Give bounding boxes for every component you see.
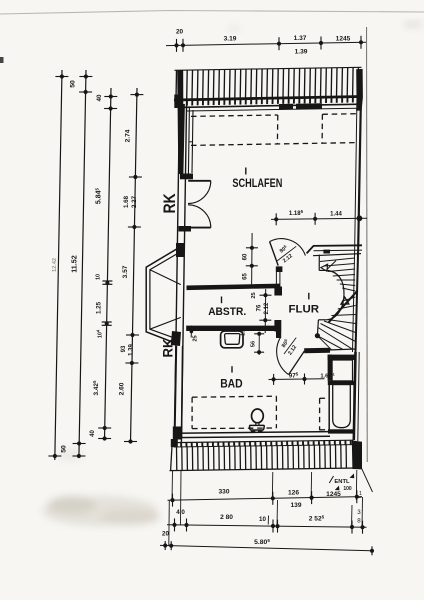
room tick abstr: [221, 297, 223, 304]
window glazing block left: [279, 104, 293, 110]
window glazing block right: [296, 103, 322, 109]
balcony band left corner: [174, 95, 181, 109]
svg-text:SCHLAFEN: SCHLAFEN: [232, 178, 282, 190]
abstr bottom wall: [186, 326, 281, 331]
svg-text:50: 50: [61, 445, 68, 453]
balcony band right end post: [356, 69, 363, 98]
schlafen double door leaf A: [188, 180, 211, 182]
svg-text:1245: 1245: [326, 491, 341, 498]
svg-text:2.12: 2.12: [264, 302, 270, 314]
extension lines to bottom dims: [168, 500, 171, 546]
svg-text:ENTL: ENTL: [334, 479, 350, 485]
svg-text:100: 100: [343, 486, 352, 492]
dashed vertical left: [276, 115, 278, 144]
svg-text:40: 40: [90, 430, 96, 437]
left wall black top section: [177, 70, 185, 174]
svg-text:330: 330: [218, 489, 229, 496]
bad dashed box bottom: [192, 427, 276, 430]
wc base marks: [251, 431, 256, 433]
scan smudge bottom left: [42, 449, 160, 526]
svg-text:11.52: 11.52: [70, 255, 79, 273]
room tick schlafen: [245, 168, 247, 175]
door jamb lower (schlafen door): [179, 226, 192, 232]
bottom dim line B: [167, 525, 367, 527]
entl arrow left: [335, 486, 340, 491]
bottom band right end post: [352, 440, 362, 469]
svg-text:2.60: 2.60: [119, 382, 126, 395]
sink dim line 56: [258, 332, 260, 355]
left dim line 1 (outermost): [55, 70, 62, 460]
wc cistern: [250, 425, 265, 430]
bay hip line top: [150, 270, 181, 285]
interior dim line 76/2.12: [264, 289, 267, 333]
svg-text:1.37: 1.37: [294, 35, 307, 42]
room tick bad: [231, 366, 233, 372]
svg-text:4 0: 4 0: [176, 509, 185, 516]
schlafen double door arc B: [188, 205, 211, 228]
svg-text:ABSTR.: ABSTR.: [208, 306, 246, 318]
bad dashed tub side top: [320, 397, 329, 399]
schlafen double door arc A: [188, 181, 211, 204]
left dim 10 hash marks lower: [102, 321, 112, 323]
flur bottom wall (thick): [304, 348, 330, 354]
stair entry arrowhead: [321, 264, 328, 271]
flur door jamb lower: [276, 332, 281, 339]
left exterior wall inner face: [181, 101, 186, 443]
wc stem: [255, 423, 257, 426]
svg-text:1245: 1245: [336, 36, 351, 43]
flur west wall middle block: [274, 287, 282, 296]
svg-text:1.39: 1.39: [129, 344, 135, 356]
balcony rail feet: [175, 101, 177, 106]
svg-text:BAD: BAD: [220, 378, 243, 390]
bad bottom wall outer: [176, 432, 330, 434]
bad dashed tub side vertical: [319, 398, 321, 430]
stair up arrowhead: [341, 297, 349, 304]
svg-text:126: 126: [288, 490, 299, 497]
bottom band hatch lines: [176, 447, 178, 471]
balcony railing band top: [175, 67, 362, 70]
left dim line 4 (innermost): [131, 88, 138, 443]
scan speck left edge: [0, 57, 4, 63]
svg-text:3: 3: [357, 509, 361, 516]
svg-text:20: 20: [176, 29, 184, 36]
bottom dim line A: [168, 497, 363, 501]
wall between shower and tub: [328, 381, 355, 385]
door 2 leaf: [289, 351, 305, 375]
svg-text:1.25: 1.25: [96, 301, 103, 314]
top right wall corner: [356, 97, 363, 111]
schlafen top wall outer: [178, 104, 363, 107]
svg-text:1: 1: [359, 491, 362, 497]
bottom band posts: [175, 443, 177, 447]
flur west wall thin section: [275, 272, 277, 287]
dashed roof line upper left: [191, 115, 278, 116]
svg-text:2 80: 2 80: [220, 514, 233, 521]
entl leader diagonal: [361, 466, 373, 492]
bay junction top black: [176, 243, 184, 257]
svg-text:93: 93: [121, 345, 127, 352]
stair bottom edge: [328, 349, 356, 350]
stair entry arrow tail: [327, 261, 336, 270]
entl arrow right: [350, 474, 355, 479]
abstr bottom wall tick 25: [190, 326, 192, 338]
left wall lining tick: [189, 141, 193, 143]
left wall bottom corner black: [173, 427, 181, 440]
entl slash: [329, 476, 333, 483]
bottom band left edge: [171, 442, 173, 470]
svg-text:3.19: 3.19: [224, 36, 237, 43]
bay hip line bottom: [150, 317, 181, 329]
bad dashed box top: [192, 396, 276, 397]
stair lower notch: [318, 319, 326, 321]
scan ghost marks top right: [228, 22, 422, 31]
svg-text:RK: RK: [161, 193, 179, 213]
svg-text:56: 56: [250, 341, 256, 347]
washbasin inner: [225, 334, 240, 345]
washbasin outer: [221, 331, 243, 348]
bathtub bottom wall: [328, 429, 354, 433]
abstr top wall: [187, 286, 281, 288]
left exterior wall outer face: [174, 70, 180, 445]
door 1 arc: [270, 239, 306, 256]
door 1 leaf: [270, 242, 279, 266]
svg-text:RK: RK: [160, 339, 176, 358]
bottom band left corner black: [171, 439, 178, 447]
stair lower treads: [343, 297, 356, 301]
svg-text:10: 10: [259, 516, 266, 523]
stair newel curve: [327, 270, 344, 319]
shower top wall: [328, 355, 356, 360]
bay window inner outline: [150, 251, 183, 340]
bay junction bottom black: [171, 331, 181, 346]
dashed roof line upper right: [322, 113, 357, 116]
svg-text:10: 10: [96, 274, 102, 280]
interior dim line 60/65: [251, 233, 254, 288]
left wall lining line 1: [188, 108, 189, 176]
room tick flur: [308, 293, 310, 300]
bottom band rail line 2: [174, 445, 354, 447]
door 2 label slash: [284, 338, 296, 354]
wc bowl: [252, 409, 264, 423]
left dim line 2: [79, 70, 86, 458]
bad dashed tub side bottom: [320, 429, 329, 431]
svg-text:FLUR: FLUR: [289, 304, 320, 316]
stair upper left edge: [318, 255, 320, 271]
svg-text:50: 50: [70, 80, 77, 88]
bottom band top edge: [174, 440, 354, 442]
balcony rail (thick): [174, 97, 362, 101]
flur west wall top jamb: [276, 266, 283, 272]
right wall (bath): [354, 352, 356, 440]
left dim 10 hash marks: [102, 280, 112, 282]
interior dim line 1.18/1.44: [271, 218, 367, 219]
door 1 label slash: [277, 246, 296, 261]
svg-text:2.74: 2.74: [125, 129, 132, 142]
dashed vertical right: [321, 114, 323, 143]
svg-text:25: 25: [193, 335, 199, 341]
svg-text:1.44: 1.44: [330, 212, 342, 218]
left dim line 3: [105, 88, 112, 440]
flur top wall notch: [323, 250, 330, 254]
bad dashed box left: [191, 397, 193, 428]
stair jog line: [319, 269, 327, 271]
door 2 arc: [277, 337, 289, 374]
svg-text:1.39: 1.39: [295, 49, 308, 56]
schlafen double door leaf B: [188, 227, 211, 229]
shower interior outline: [332, 360, 352, 381]
right exterior wall (schlafen): [358, 105, 361, 248]
svg-text:8: 8: [357, 518, 361, 525]
stair up direction line (thick): [329, 291, 358, 323]
dashed roof line lower: [191, 143, 357, 146]
stair lower junction dot: [315, 333, 320, 338]
svg-text:2.27: 2.27: [131, 195, 138, 208]
svg-text:3.57: 3.57: [122, 265, 129, 278]
bad dashed box right: [275, 396, 277, 428]
right border line: [366, 27, 369, 462]
svg-text:20: 20: [162, 531, 169, 538]
svg-text:60: 60: [243, 253, 249, 260]
svg-text:65: 65: [242, 273, 248, 280]
flur top wall segment: [307, 245, 362, 253]
bay window outer outline: [146, 246, 182, 344]
schlafen top wall inner: [187, 108, 358, 111]
balcony hatch lines: [175, 70, 178, 100]
door jamb upper (schlafen door): [180, 174, 193, 180]
right wall (stairwell): [356, 247, 359, 352]
left wall lower dark sections: [175, 346, 177, 437]
svg-text:139: 139: [290, 502, 301, 509]
bottom band bottom edge: [170, 468, 358, 471]
bad bottom wall inner: [176, 436, 330, 437]
svg-text:76: 76: [257, 304, 263, 311]
stair upper treads: [320, 258, 355, 262]
bathtub outer: [329, 383, 354, 431]
svg-text:1.68: 1.68: [123, 195, 130, 208]
flur west wall lower block: [274, 320, 281, 332]
bottom dim line C: [160, 545, 372, 550]
left wall lining line 2: [192, 110, 193, 173]
svg-text:40: 40: [96, 94, 103, 101]
shower left wall: [328, 355, 333, 381]
dim line 97.5: [269, 378, 325, 381]
stair top edge: [313, 254, 361, 256]
svg-text:12.42: 12.42: [52, 258, 58, 272]
top dimension line: [166, 42, 366, 45]
svg-text:25: 25: [251, 292, 257, 298]
scan top edge line: [0, 11, 424, 15]
dim mark 1 right end: [358, 496, 362, 498]
bathtub inner: [333, 385, 351, 428]
